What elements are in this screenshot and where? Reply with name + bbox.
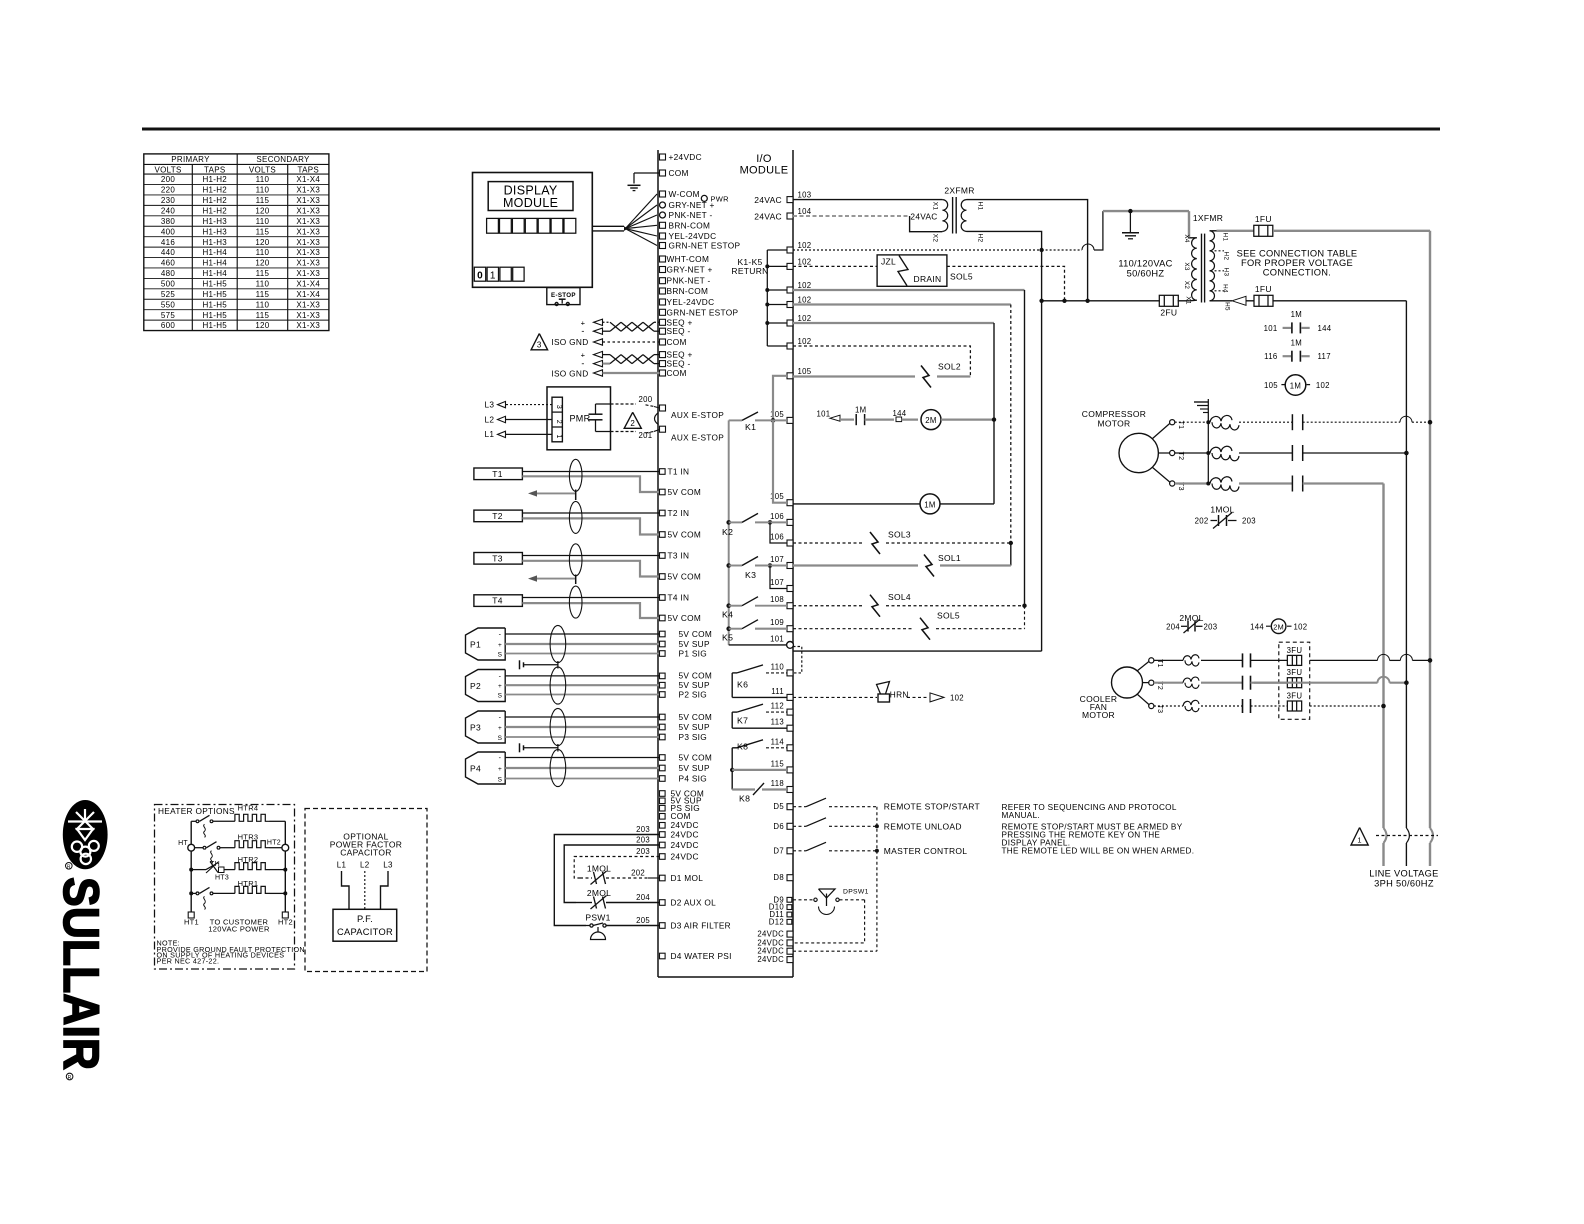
- pin SEQ -: [660, 328, 666, 334]
- svg-text:CAPACITOR: CAPACITOR: [340, 848, 392, 858]
- svg-text:K2: K2: [722, 527, 733, 537]
- svg-text:X1-X3: X1-X3: [296, 186, 320, 195]
- display module keypad buttons: [487, 218, 499, 233]
- Sullair registered mark bottom: [66, 1073, 73, 1080]
- svg-text:+: +: [498, 642, 502, 649]
- svg-text:X1-X3: X1-X3: [296, 238, 320, 247]
- svg-text:P.F.: P.F.: [357, 914, 373, 924]
- svg-text:ISO GND: ISO GND: [551, 369, 588, 379]
- pin 102 y266.4: [787, 263, 793, 269]
- svg-text:103: 103: [798, 191, 812, 200]
- svg-text:X1: X1: [1185, 296, 1192, 305]
- svg-text:-: -: [499, 673, 502, 680]
- svg-text:106: 106: [770, 533, 784, 542]
- fan terminal T1: [1149, 658, 1154, 663]
- pin D11: [787, 912, 792, 917]
- wire T3 to bus L3: [1303, 482, 1384, 484]
- wire fan T3 to bus L3: [1310, 705, 1384, 707]
- pin 24VDC y834.5: [660, 832, 666, 838]
- svg-text:K1: K1: [745, 422, 756, 432]
- svg-text:ISO GND: ISO GND: [551, 337, 588, 347]
- I/O module bottom edge: [658, 976, 793, 978]
- svg-text:525: 525: [161, 290, 175, 299]
- svg-text:204: 204: [1166, 623, 1180, 632]
- svg-text:P1 SIG: P1 SIG: [679, 648, 708, 658]
- E-STOP switch symbol: [555, 303, 558, 306]
- svg-text:X3: X3: [1183, 262, 1190, 271]
- svg-text:500: 500: [161, 280, 175, 289]
- svg-text:5V SUP: 5V SUP: [679, 722, 710, 732]
- terminal HT2 right: [282, 844, 289, 851]
- connector T2: [474, 510, 523, 522]
- pin GRY-NET +: [660, 202, 666, 208]
- pin PS SIG y808.2: [660, 805, 666, 811]
- wire 24VDC to PSW1: [554, 835, 659, 926]
- svg-text:MODULE: MODULE: [503, 196, 558, 210]
- svg-text:H1-H3: H1-H3: [202, 227, 227, 236]
- svg-text:203: 203: [1204, 623, 1218, 632]
- pin 118 y789.5: [787, 787, 793, 793]
- svg-text:50/60HZ: 50/60HZ: [1127, 269, 1165, 279]
- jumper pin101 to pin110: [793, 647, 802, 673]
- svg-text:H1-H4: H1-H4: [202, 248, 227, 257]
- wire 2XFMR H1 down to hot: [967, 200, 1088, 301]
- svg-text:120: 120: [255, 206, 269, 215]
- line bus L3: [1382, 484, 1384, 829]
- svg-text:K8: K8: [739, 794, 750, 804]
- svg-text:-: -: [581, 359, 584, 369]
- connector P1: [466, 628, 506, 660]
- wire 24VDC to 1MOL: [574, 857, 659, 879]
- svg-text:X1-X3: X1-X3: [296, 206, 320, 215]
- pin 5V SUP y800.8: [660, 798, 666, 804]
- pin 108 y605.7: [787, 603, 793, 609]
- svg-text:144: 144: [1250, 622, 1264, 631]
- svg-text:+24VDC: +24VDC: [669, 152, 702, 162]
- svg-text:PNK-NET -: PNK-NET -: [667, 276, 711, 286]
- wire 102 row2 to JZL: [793, 265, 877, 267]
- svg-text:P1: P1: [470, 640, 481, 650]
- svg-text:WHT-COM: WHT-COM: [667, 254, 710, 264]
- pin 111 y697.4: [787, 694, 793, 700]
- svg-text:D1 MOL: D1 MOL: [671, 873, 704, 883]
- svg-text:HT3: HT3: [215, 875, 229, 882]
- motor terminal T1: [1170, 420, 1175, 425]
- ground symbol COM: [628, 184, 641, 186]
- fan terminal T2: [1149, 680, 1154, 685]
- relay contact K8 first: [731, 748, 733, 790]
- svg-text:115: 115: [771, 759, 785, 768]
- pin GRY-NET +: [660, 267, 666, 273]
- pin T4 IN y597.5: [660, 595, 666, 601]
- I/O module right rail: [792, 150, 794, 977]
- svg-text:S: S: [498, 693, 503, 700]
- svg-text:E-STOP: E-STOP: [551, 292, 576, 299]
- svg-text:24VAC: 24VAC: [910, 211, 937, 221]
- wire 108 SOL4 rung: [793, 605, 864, 607]
- svg-text:1M: 1M: [1291, 338, 1302, 347]
- svg-text:120: 120: [255, 321, 269, 330]
- svg-text:SOL3: SOL3: [888, 530, 911, 540]
- svg-text:D12: D12: [769, 917, 784, 926]
- pin 24VDC: [787, 940, 793, 946]
- relay contact K5: [726, 626, 731, 631]
- pin 107 y588.5: [787, 586, 793, 592]
- contactor coil 2M: [921, 410, 941, 430]
- pin 5V SUP y685.2: [660, 682, 666, 688]
- svg-text:R: R: [68, 1075, 72, 1081]
- svg-text:X1-X3: X1-X3: [296, 300, 320, 309]
- svg-text:X1-X3: X1-X3: [296, 269, 320, 278]
- svg-text:T3: T3: [492, 553, 503, 563]
- display module switch row 0 1: [474, 267, 485, 281]
- fuse block 3FU dashed box: [1279, 642, 1310, 719]
- pin 104 y216: [787, 213, 793, 219]
- svg-text:201: 201: [639, 431, 653, 440]
- shield ellipse T4: [569, 586, 582, 618]
- relay contact K7: [731, 712, 733, 728]
- overload heater 1MOL T3: [1175, 482, 1209, 484]
- svg-text:2M: 2M: [925, 416, 936, 425]
- svg-text:H1-H5: H1-H5: [202, 280, 227, 289]
- svg-text:X2: X2: [1183, 281, 1190, 290]
- svg-text:5V COM: 5V COM: [679, 629, 713, 639]
- pin 106 y543: [787, 540, 793, 546]
- svg-text:110/120VAC: 110/120VAC: [1118, 259, 1172, 269]
- wire T4 IN: [522, 597, 659, 599]
- pin 5V COM y492: [660, 489, 666, 495]
- svg-text:SOL5: SOL5: [937, 611, 960, 621]
- svg-text:D7: D7: [773, 846, 784, 855]
- svg-text:460: 460: [161, 259, 175, 268]
- svg-text:YEL-24VDC: YEL-24VDC: [667, 297, 715, 307]
- pin 105 y502.7: [787, 500, 793, 506]
- pin +24VDC: [660, 154, 666, 160]
- svg-text:T4 IN: T4 IN: [668, 592, 690, 602]
- wire 109 SOL5 rung: [793, 628, 914, 630]
- pin BRN-COM: [660, 222, 666, 228]
- pin 106 y522.4: [787, 519, 793, 525]
- svg-text:COM: COM: [669, 168, 689, 178]
- svg-text:L2: L2: [360, 861, 370, 870]
- svg-text:H3: H3: [1223, 268, 1230, 277]
- pin 5V COM y757.5: [660, 755, 666, 761]
- PSW1 bell symbol: [591, 932, 606, 940]
- I/O module left rail: [657, 150, 659, 977]
- pin P3 SIG y737: [660, 734, 666, 740]
- svg-text:SOL4: SOL4: [888, 592, 911, 602]
- svg-text:L1: L1: [485, 429, 495, 439]
- svg-text:106: 106: [770, 512, 784, 521]
- wire T3 5V COM: [522, 561, 659, 577]
- svg-text:-: -: [499, 755, 502, 762]
- svg-text:5V COM: 5V COM: [668, 487, 702, 497]
- svg-text:1XFMR: 1XFMR: [1193, 213, 1223, 223]
- svg-text:VOLTS: VOLTS: [154, 165, 181, 174]
- svg-text:-: -: [499, 632, 502, 639]
- svg-text:H2: H2: [977, 234, 984, 243]
- svg-text:1M: 1M: [1290, 382, 1301, 391]
- pin D10: [787, 905, 792, 910]
- svg-text:THE REMOTE LED WILL BE ON WHEN: THE REMOTE LED WILL BE ON WHEN ARMED.: [1002, 847, 1195, 856]
- svg-text:1: 1: [490, 270, 496, 281]
- svg-text:H1-H2: H1-H2: [202, 175, 227, 184]
- pin COM y816.3: [660, 814, 666, 820]
- pin WHT-COM: [660, 256, 666, 262]
- svg-text:416: 416: [161, 238, 175, 247]
- svg-text:W-COM: W-COM: [669, 189, 700, 199]
- svg-text:CAPACITOR: CAPACITOR: [337, 927, 393, 937]
- overload heater 2MOL T2: [1154, 682, 1183, 684]
- svg-text:GRY-NET +: GRY-NET +: [667, 265, 713, 275]
- wire fan T1 to bus L1: [1310, 659, 1378, 661]
- svg-text:K3: K3: [745, 570, 756, 580]
- fan motor leads: [1137, 662, 1149, 672]
- svg-text:115: 115: [256, 227, 270, 236]
- AUX E-STOP contact arc: [655, 413, 659, 425]
- svg-text:108: 108: [770, 595, 784, 604]
- bus break arcs: [1384, 828, 1387, 843]
- pin 112 y712.1: [787, 709, 793, 715]
- pin P4 SIG y778.5: [660, 776, 666, 782]
- svg-text:H1: H1: [1222, 233, 1229, 242]
- svg-text:K7: K7: [737, 716, 748, 726]
- pin 5V SUP y727: [660, 724, 666, 730]
- svg-text:BRN-COM: BRN-COM: [669, 220, 711, 230]
- horn HRN rung: [793, 696, 877, 698]
- svg-text:3: 3: [537, 341, 542, 350]
- svg-text:MOTOR: MOTOR: [1098, 419, 1131, 429]
- connector P3: [466, 711, 506, 743]
- svg-text:115: 115: [256, 196, 270, 205]
- wire K1 to pin 105 row3: [773, 420, 787, 502]
- svg-text:P3 SIG: P3 SIG: [679, 732, 708, 742]
- svg-text:-: -: [499, 715, 502, 722]
- svg-text:24VAC: 24VAC: [754, 212, 782, 222]
- svg-text:2MOL: 2MOL: [1179, 613, 1203, 623]
- svg-text:X1-X3: X1-X3: [296, 248, 320, 257]
- pin W-COM: [660, 191, 666, 197]
- connector P4: [466, 752, 506, 784]
- svg-text:104: 104: [798, 207, 812, 216]
- pin GRN-NET ESTOP: [660, 309, 666, 315]
- svg-text:115: 115: [256, 311, 270, 320]
- relay contact K8 second: [732, 788, 755, 790]
- svg-text:SEQ -: SEQ -: [667, 326, 691, 336]
- svg-text:110: 110: [256, 186, 270, 195]
- wire display cable to pin: [625, 215, 657, 229]
- svg-text:GRN-NET ESTOP: GRN-NET ESTOP: [667, 307, 739, 317]
- svg-text:24VDC: 24VDC: [671, 840, 699, 850]
- svg-text:240: 240: [161, 206, 175, 215]
- svg-text:2M: 2M: [1273, 623, 1284, 632]
- svg-text:AUX E-STOP: AUX E-STOP: [671, 410, 724, 420]
- pin 5V COM y675.9: [660, 673, 666, 679]
- shield ground P1/P2: [519, 660, 521, 669]
- svg-text:H5: H5: [1224, 302, 1231, 311]
- overload heater 2MOL T1: [1154, 659, 1183, 661]
- svg-text:113: 113: [771, 718, 784, 727]
- K1-K5 return bus: [766, 250, 768, 346]
- svg-text:440: 440: [161, 248, 175, 257]
- wire 201 PMR to AUX E-STOP: [611, 431, 637, 433]
- svg-text:HTR4: HTR4: [238, 804, 259, 813]
- line bus L1: [1429, 231, 1431, 828]
- wire 2XFMR H2 to 102: [967, 231, 1042, 250]
- pin COM: [660, 339, 666, 345]
- svg-text:YEL-24VDC: YEL-24VDC: [669, 231, 717, 241]
- solenoid SOL3: [870, 532, 880, 554]
- pin 5V SUP y644: [660, 641, 666, 647]
- svg-text:203: 203: [636, 847, 650, 856]
- svg-text:COM: COM: [667, 368, 687, 378]
- remote dashed bus: [876, 807, 878, 952]
- pin D1 MOL y878: [660, 875, 666, 881]
- svg-text:HT2: HT2: [267, 840, 281, 847]
- svg-text:120: 120: [255, 259, 269, 268]
- warning triangle 2: [624, 412, 641, 428]
- svg-text:1FU: 1FU: [1255, 284, 1272, 294]
- svg-text:1M: 1M: [855, 406, 866, 415]
- svg-text:112: 112: [771, 702, 784, 711]
- pin YEL-24VDC: [660, 299, 666, 305]
- svg-text:GRN-NET ESTOP: GRN-NET ESTOP: [669, 241, 741, 251]
- svg-text:202: 202: [1195, 517, 1209, 526]
- svg-text:H1-H5: H1-H5: [202, 300, 227, 309]
- svg-text:SECONDARY: SECONDARY: [256, 155, 310, 164]
- svg-text:FOR PROPER VOLTAGE: FOR PROPER VOLTAGE: [1241, 258, 1353, 268]
- svg-text:102: 102: [798, 296, 812, 305]
- svg-text:SULLAIR: SULLAIR: [53, 877, 109, 1070]
- svg-text:T4: T4: [492, 596, 503, 606]
- pin 5V COM y576.5: [660, 574, 666, 580]
- svg-text:2XFMR: 2XFMR: [944, 186, 974, 196]
- svg-text:TAPS: TAPS: [298, 165, 320, 174]
- svg-text:110: 110: [256, 175, 270, 184]
- svg-text:114: 114: [771, 737, 785, 746]
- shield ellipse T1: [569, 459, 582, 491]
- display module screen: [488, 182, 573, 211]
- pin BRN-COM: [660, 288, 666, 294]
- relay contact K4: [726, 603, 731, 608]
- svg-text:144: 144: [1318, 324, 1332, 333]
- pin 103 y199.6: [787, 197, 793, 203]
- contactor coil 1M: [920, 494, 940, 514]
- svg-text:CONNECTION.: CONNECTION.: [1263, 268, 1331, 278]
- pin 101: [787, 642, 794, 649]
- wire 102 row6: [793, 346, 970, 377]
- svg-text:1: 1: [1357, 836, 1361, 845]
- pin P1 SIG y653.5: [660, 651, 666, 657]
- svg-text:203: 203: [636, 825, 650, 834]
- svg-text:MOTOR: MOTOR: [1082, 710, 1115, 720]
- wire 102 row3: [793, 289, 1025, 291]
- heater bus right: [284, 821, 286, 912]
- svg-text:HEATER OPTIONS: HEATER OPTIONS: [158, 806, 235, 816]
- svg-text:S: S: [498, 777, 503, 784]
- svg-text:D6: D6: [773, 822, 784, 831]
- svg-text:203: 203: [636, 836, 650, 845]
- pin 24VDC y845: [660, 842, 666, 848]
- pin T2 IN y513: [660, 510, 666, 516]
- svg-text:115: 115: [256, 290, 270, 299]
- svg-text:HT2: HT2: [278, 918, 293, 927]
- svg-text:102: 102: [798, 314, 812, 323]
- fuse 1FU bottom: [1217, 300, 1233, 302]
- warning triangle 1: [1351, 828, 1368, 846]
- svg-text:K8: K8: [737, 742, 748, 752]
- relay contact K1: [729, 419, 742, 421]
- svg-text:K5: K5: [722, 633, 733, 643]
- svg-text:5V COM: 5V COM: [668, 571, 702, 581]
- svg-text:REMOTE STOP/START: REMOTE STOP/START: [884, 802, 980, 812]
- svg-text:5V COM: 5V COM: [668, 529, 702, 539]
- svg-text:+: +: [498, 725, 502, 732]
- svg-text:480: 480: [161, 269, 175, 278]
- svg-text:1: 1: [555, 434, 562, 438]
- svg-text:204: 204: [636, 893, 650, 902]
- overload heater 1MOL T2: [1175, 452, 1209, 454]
- svg-text:H2: H2: [1223, 252, 1230, 261]
- Sullair logo mark: [63, 800, 108, 869]
- svg-text:101: 101: [770, 635, 784, 644]
- svg-text:X1-X4: X1-X4: [296, 290, 320, 299]
- wire T2 5V COM: [522, 518, 659, 534]
- svg-text:AUX E-STOP: AUX E-STOP: [671, 433, 724, 443]
- svg-text:110: 110: [771, 662, 785, 671]
- pin 102 y304.5: [787, 302, 793, 308]
- terminal HT1: [188, 912, 194, 918]
- svg-text:5V SUP: 5V SUP: [679, 763, 710, 773]
- svg-text:HRN: HRN: [890, 690, 909, 700]
- cooler fan motor circle: [1112, 667, 1143, 698]
- pin D5: [787, 804, 793, 810]
- chassis ground compressor: [1207, 399, 1209, 484]
- relay contact K3: [726, 563, 731, 568]
- motor leads: [1152, 424, 1170, 440]
- svg-text:1M: 1M: [924, 500, 935, 509]
- svg-text:X1: X1: [932, 202, 939, 211]
- svg-text:-: -: [581, 326, 584, 336]
- svg-text:D2 AUX OL: D2 AUX OL: [671, 897, 717, 907]
- solenoid SOL2: [921, 366, 931, 388]
- svg-text:H1-H3: H1-H3: [202, 238, 227, 247]
- svg-text:550: 550: [161, 300, 175, 309]
- wire P3 SIG: [505, 736, 659, 738]
- svg-text:3FU: 3FU: [1287, 692, 1303, 701]
- pin 102 y346: [787, 343, 793, 349]
- svg-text:TAPS: TAPS: [204, 165, 226, 174]
- svg-text:S: S: [498, 735, 503, 742]
- wire display cable to pin: [625, 225, 657, 228]
- wire P3 5V COM: [505, 716, 659, 718]
- K ladder bus: [728, 420, 730, 645]
- pin D8: [787, 875, 793, 881]
- svg-text:203: 203: [1242, 517, 1256, 526]
- pin T3 IN y555.5: [660, 553, 666, 559]
- 1XFMR tap stubs: [1210, 230, 1217, 232]
- svg-text:H1-H4: H1-H4: [202, 269, 227, 278]
- wire display cable to pin: [625, 229, 657, 236]
- pin 5V COM y618: [660, 615, 666, 621]
- shield ellipse P1: [550, 625, 566, 662]
- svg-text:24VAC: 24VAC: [754, 195, 782, 205]
- svg-text:X4: X4: [1183, 234, 1190, 243]
- svg-text:110: 110: [256, 248, 270, 257]
- svg-text:I/O: I/O: [756, 153, 772, 165]
- svg-text:3PH 50/60HZ: 3PH 50/60HZ: [1374, 879, 1434, 889]
- fuse 1FU top: [1217, 230, 1254, 232]
